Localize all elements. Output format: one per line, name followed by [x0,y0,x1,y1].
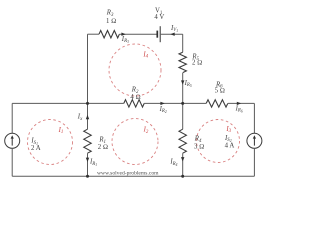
arrow IR6 [237,102,241,105]
svg-text:R3: R3 [106,10,114,18]
wire left edge upper [11,103,13,133]
svg-text:I3: I3 [225,126,231,134]
resistor R4 [179,129,186,153]
wire top row right segment [161,33,183,35]
svg-text:4 V: 4 V [154,14,164,21]
current source IS1 circle [5,133,20,148]
svg-text:IR3: IR3 [121,36,129,44]
svg-text:4 A: 4 A [225,143,235,150]
node dot bottom-left [86,175,89,178]
svg-text:I2: I2 [143,127,149,135]
arrow IV1 [170,33,174,36]
wire R1 branch lower [87,153,89,176]
svg-text:2 Ω: 2 Ω [98,144,108,151]
current source IS1 arrow [11,135,14,145]
wire middle row right segment [228,102,254,104]
wire right riser lower [182,73,184,103]
svg-text:5 Ω: 5 Ω [215,87,225,94]
svg-text:IV1: IV1 [170,25,178,33]
svg-text:3 Ω: 3 Ω [194,143,204,150]
svg-text:IR4: IR4 [169,159,177,167]
resistor R3 [99,31,119,38]
wire middle row center segment [144,102,206,104]
mesh circle I4 [109,44,161,96]
resistor R6 [206,100,228,107]
resistor R2 [124,100,144,107]
svg-text:I1: I1 [58,127,64,135]
node dot middle-right [181,102,184,105]
voltage source V1 short plate [156,31,158,38]
svg-text:www.solved-problems.com: www.solved-problems.com [97,170,159,176]
arrow Ix (up) [86,115,89,119]
wire left riser [87,34,89,103]
svg-text:IR6: IR6 [235,105,243,113]
svg-text:1 Ω: 1 Ω [106,18,116,25]
wire right edge upper [253,103,255,133]
svg-text:IR1: IR1 [89,159,97,167]
resistor R5 [179,52,186,72]
arrow IR3 [121,33,125,36]
arrow IR2 [160,102,164,105]
mesh circle I1 [28,120,73,165]
svg-text:I4: I4 [142,51,148,59]
current source IS2 arrow [253,135,256,145]
svg-text:Ix: Ix [77,114,83,122]
wire middle row left segment [12,102,124,104]
wire bottom row [12,175,254,177]
mesh circle I2 [112,119,158,165]
node dot bottom-right [181,175,184,178]
arrow IR1 [86,158,89,162]
wire R4 branch upper [182,103,184,129]
svg-text:2 A: 2 A [31,145,41,152]
wire right edge lower [253,148,255,176]
mesh circle I3 [197,120,240,163]
voltage source V1 long plate [159,26,161,42]
wire R4 branch lower [182,153,184,176]
wire top row left segment [88,33,100,35]
current source IS2 circle [247,133,262,148]
wire top row mid segment [119,33,156,35]
arrow IR4 [181,157,184,161]
wire left edge lower [11,148,13,176]
wire R1 branch upper [87,103,89,129]
svg-text:2 Ω: 2 Ω [192,60,202,67]
arrow IR5 [181,80,184,84]
svg-text:IR5: IR5 [184,80,192,88]
svg-text:4 Ω: 4 Ω [130,94,140,101]
resistor R1 [84,129,91,153]
svg-text:IR2: IR2 [159,106,167,114]
node dot middle-left [86,102,89,105]
wire right riser upper [182,34,184,52]
